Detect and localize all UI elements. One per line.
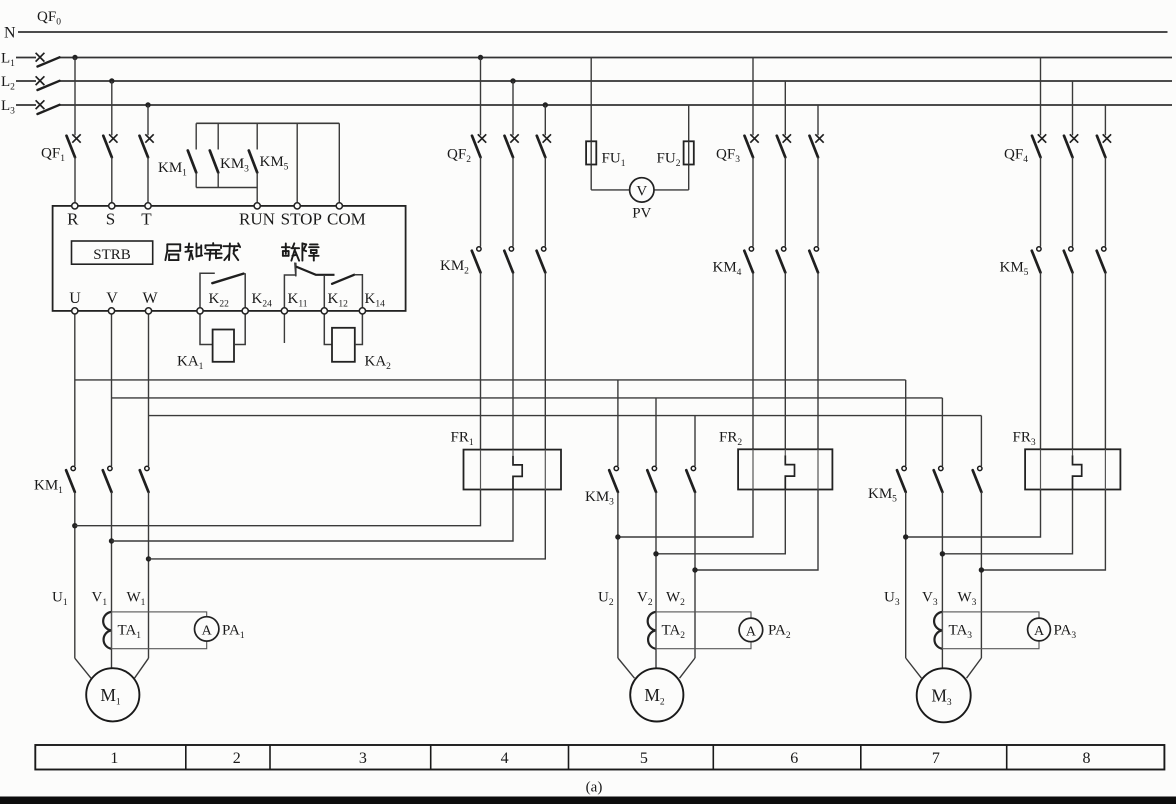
thermal relay FR3 pole 3 wire xyxy=(1104,449,1106,489)
svg-text:U1: U1 xyxy=(52,590,68,609)
wire K11 stub xyxy=(283,311,285,343)
ammeter PA1 xyxy=(195,617,219,641)
svg-text:QF1: QF1 xyxy=(41,146,65,165)
node KM3-FR2 junction U xyxy=(615,534,620,539)
contactor KM3 main contact pole 3 xyxy=(694,416,696,466)
node KM5-FR3 junction U xyxy=(903,534,908,539)
svg-text:KA2: KA2 xyxy=(365,354,392,373)
node KM3-FR2 junction V xyxy=(653,551,658,556)
node KM5-FR3 junction W xyxy=(979,567,984,572)
svg-text:KM1: KM1 xyxy=(34,478,63,497)
svg-text:KM5: KM5 xyxy=(260,154,289,173)
contactor KM5 (bypass M3) pole 2 xyxy=(1069,247,1073,251)
contactor KM1 main contact pole 3 xyxy=(145,466,149,470)
bottom black bar xyxy=(0,797,1176,804)
terminal T xyxy=(145,203,151,209)
terminal W xyxy=(145,308,151,314)
terminal K14 xyxy=(359,308,365,314)
wire W2 to motor M2 xyxy=(680,658,696,678)
svg-text:KM5: KM5 xyxy=(1000,260,1029,279)
svg-text:6: 6 xyxy=(790,750,798,767)
wire FR3 output W to KM5 xyxy=(981,490,1105,571)
breaker QF1 pole 3 xyxy=(147,105,149,135)
svg-text:V1: V1 xyxy=(92,590,108,609)
label guzhang (fault) xyxy=(282,243,299,260)
svg-text:W: W xyxy=(142,290,158,307)
svg-text:K12: K12 xyxy=(328,291,349,310)
wire V output bus xyxy=(111,311,113,466)
breaker QF1 pole 2 xyxy=(111,81,113,135)
contactor KM3 main contact pole 2 xyxy=(655,398,657,466)
contactor KM5 main contact pole 3 xyxy=(980,416,982,466)
wire voltmeter connection xyxy=(591,189,689,191)
svg-text:2: 2 xyxy=(233,750,241,767)
thermal relay FR1 box xyxy=(464,450,562,490)
fuse FU2 xyxy=(688,105,690,190)
breaker QF3 pole 3 xyxy=(817,105,819,135)
wire FR3 output U to KM5 xyxy=(906,490,1041,538)
svg-text:KM5: KM5 xyxy=(868,486,897,505)
thermal relay FR1 pole 3 wire xyxy=(544,450,546,490)
thermal relay FR3 heater symbol (pole 2) xyxy=(1072,449,1074,455)
fuse FU1 xyxy=(590,58,592,190)
svg-text:V3: V3 xyxy=(922,590,938,609)
wire L2 rail xyxy=(16,80,36,82)
svg-text:TA1: TA1 xyxy=(118,623,142,642)
inverter (VFD) box xyxy=(53,206,406,311)
wire FR1 output V to KM1 xyxy=(112,490,514,542)
wire top bus of run contacts xyxy=(196,122,339,124)
wire FR2 output W to KM3 xyxy=(695,490,818,571)
svg-text:L1: L1 xyxy=(1,51,15,70)
thermal relay FR2 box xyxy=(738,449,832,489)
breaker QF4 pole 2 xyxy=(1072,81,1074,135)
wire W3 to motor M3 xyxy=(967,658,982,678)
wire TA2 to PA2 xyxy=(656,612,751,649)
wire STOP terminal drop xyxy=(296,123,298,206)
wire RUN terminal drop xyxy=(256,188,258,206)
svg-text:L3: L3 xyxy=(1,98,15,117)
svg-text:TA3: TA3 xyxy=(949,623,973,642)
contact K22-K24 (start complete relay) xyxy=(200,273,215,311)
wire TA3 to PA3 xyxy=(942,612,1039,649)
terminal K11 xyxy=(281,308,287,314)
node L1-QF1 junction xyxy=(72,55,77,60)
svg-text:V: V xyxy=(636,184,647,200)
ammeter PA2 xyxy=(739,618,763,642)
node L3-QF1 junction xyxy=(145,102,150,107)
relay coil KA1 xyxy=(200,311,213,345)
ammeter PA3 xyxy=(1028,618,1051,641)
contactor KM4 pole 2 xyxy=(782,247,786,251)
contactor KM5 (bypass M3) pole 1 xyxy=(1037,247,1041,251)
svg-text:K22: K22 xyxy=(209,291,230,310)
current transformer TA1 xyxy=(103,612,111,649)
node KM5-FR3 junction V xyxy=(940,551,945,556)
terminal COM xyxy=(336,203,342,209)
contact KM3 (run command) xyxy=(217,123,219,149)
breaker QF2 pole 2 xyxy=(512,81,514,135)
svg-text:PA3: PA3 xyxy=(1054,623,1077,642)
wire W to motor M1 xyxy=(135,658,149,678)
wire U to motor M1 xyxy=(75,658,91,678)
svg-text:W2: W2 xyxy=(666,590,685,609)
svg-text:4: 4 xyxy=(501,750,509,767)
node KM1-FR1 junction V xyxy=(109,538,114,543)
breaker QF0 pole 2 xyxy=(36,76,45,85)
svg-text:KM1: KM1 xyxy=(158,160,187,179)
contactor KM2 pole 1 xyxy=(477,247,481,251)
motor M3 xyxy=(917,668,971,722)
svg-text:L2: L2 xyxy=(1,74,15,93)
svg-text:PV: PV xyxy=(632,206,651,222)
breaker QF0 pole 3 xyxy=(36,100,45,109)
svg-text:A: A xyxy=(746,624,757,639)
terminal STOP xyxy=(294,203,300,209)
svg-text:QF2: QF2 xyxy=(447,147,471,166)
svg-text:U: U xyxy=(69,290,81,307)
label qidong-wancheng (start complete) xyxy=(165,244,180,260)
svg-text:U3: U3 xyxy=(884,590,900,609)
motor M1 xyxy=(86,668,139,721)
node L2-QF1 junction xyxy=(109,78,114,83)
svg-text:A: A xyxy=(1034,624,1045,639)
svg-text:A: A xyxy=(202,623,213,638)
contactor KM2 pole 3 xyxy=(542,247,546,251)
node L1-QF2 junction xyxy=(478,55,483,60)
contactor KM1 main contact pole 2 xyxy=(108,466,112,470)
motor M2 xyxy=(630,668,683,721)
breaker QF3 pole 2 xyxy=(784,81,786,135)
contactor KM5 main contact pole 2 xyxy=(941,398,943,466)
fault pointer line xyxy=(295,263,296,277)
thermal relay FR2 pole 1 wire xyxy=(752,449,754,489)
current transformer TA2 xyxy=(648,612,656,649)
svg-text:RUN STOP COM: RUN STOP COM xyxy=(239,210,366,229)
contactor KM2 pole 2 xyxy=(509,247,513,251)
svg-text:KM3: KM3 xyxy=(220,156,249,175)
svg-text:STRB: STRB xyxy=(93,247,131,263)
wire TA1 to PA1 xyxy=(112,612,207,649)
terminal K24 xyxy=(242,308,248,314)
contact KM1 (run command) xyxy=(195,123,197,149)
thermal relay FR1 heater symbol (pole 2) xyxy=(512,450,514,456)
svg-text:KM3: KM3 xyxy=(585,489,614,508)
wire W output bus xyxy=(148,311,150,466)
svg-text:V: V xyxy=(106,290,118,307)
node L2-QF2 junction xyxy=(510,78,515,83)
wire COM terminal drop xyxy=(338,123,340,206)
terminal U xyxy=(72,308,78,314)
contactor KM5 (bypass M3) pole 3 xyxy=(1102,247,1106,251)
svg-text:K11: K11 xyxy=(288,291,308,310)
contact K11-K12-K14 (fault relay) xyxy=(284,275,295,311)
svg-text:TA2: TA2 xyxy=(662,623,686,642)
breaker QF1 pole 1 xyxy=(74,58,76,136)
breaker QF3 pole 1 xyxy=(752,58,754,136)
svg-text:QF3: QF3 xyxy=(716,147,740,166)
terminal RUN xyxy=(254,203,260,209)
wire L1 rail xyxy=(16,57,36,59)
terminal V xyxy=(108,308,114,314)
svg-text:T: T xyxy=(141,210,152,229)
svg-text:U2: U2 xyxy=(598,590,614,609)
svg-text:FR1: FR1 xyxy=(451,430,474,449)
thermal relay FR1 pole 1 wire xyxy=(480,450,482,490)
svg-text:FU2: FU2 xyxy=(657,151,681,170)
relay coil KA2 xyxy=(324,311,332,345)
node KM1-FR1 junction W xyxy=(146,556,151,561)
wire FR2 output V to KM3 xyxy=(656,490,785,554)
svg-text:7: 7 xyxy=(932,750,940,767)
svg-text:S: S xyxy=(106,210,115,229)
display STRB box xyxy=(72,241,153,264)
wire U3 to motor M3 xyxy=(906,658,922,678)
svg-text:W3: W3 xyxy=(958,590,977,609)
svg-text:V2: V2 xyxy=(637,590,653,609)
terminal R xyxy=(72,203,78,209)
thermal relay FR2 heater symbol (pole 2) xyxy=(784,449,786,455)
wire FR1 output U to KM1 xyxy=(75,490,481,526)
svg-text:K14: K14 xyxy=(365,291,386,310)
contactor KM4 pole 3 xyxy=(814,247,818,251)
breaker QF2 pole 1 xyxy=(480,58,482,136)
svg-text:K24: K24 xyxy=(252,291,273,310)
svg-text:KM4: KM4 xyxy=(713,260,742,279)
svg-text:FU1: FU1 xyxy=(602,151,626,170)
wire U2 to motor M2 xyxy=(618,658,635,678)
svg-text:PA2: PA2 xyxy=(768,623,791,642)
contactor KM5 main contact pole 1 xyxy=(905,380,907,466)
node KM3-FR2 junction W xyxy=(692,567,697,572)
svg-text:R: R xyxy=(67,210,79,229)
terminal S xyxy=(109,203,115,209)
contactor KM3 main contact pole 1 xyxy=(617,380,619,466)
svg-text:QF0: QF0 xyxy=(37,9,61,28)
svg-text:8: 8 xyxy=(1083,750,1091,767)
svg-text:3: 3 xyxy=(359,750,367,767)
svg-text:KA1: KA1 xyxy=(177,354,204,373)
contactor KM4 pole 1 xyxy=(749,247,753,251)
svg-text:W1: W1 xyxy=(127,590,146,609)
svg-text:PA1: PA1 xyxy=(222,623,245,642)
wire bottom bus of run contacts xyxy=(196,187,257,189)
wire L3 rail xyxy=(16,104,36,106)
contactor KM1 main contact pole 1 xyxy=(71,466,75,470)
wire U output bus xyxy=(74,311,76,466)
breaker QF4 pole 3 xyxy=(1104,105,1106,135)
svg-text:5: 5 xyxy=(640,750,648,767)
wire FR3 output V to KM5 xyxy=(942,490,1072,554)
svg-text:1: 1 xyxy=(110,750,118,767)
svg-text:KM2: KM2 xyxy=(440,258,469,277)
node KM1-FR1 junction U xyxy=(72,523,77,528)
breaker QF0 pole 1 xyxy=(36,53,45,62)
current transformer TA3 xyxy=(934,612,942,649)
svg-text:FR3: FR3 xyxy=(1013,430,1036,449)
wire N rail xyxy=(18,31,1168,33)
terminal K22 xyxy=(197,308,203,314)
thermal relay FR2 pole 3 wire xyxy=(817,449,819,489)
terminal K12 xyxy=(321,308,327,314)
svg-text:FR2: FR2 xyxy=(719,430,742,449)
wire FR2 output U to KM3 xyxy=(618,490,753,538)
voltmeter PV xyxy=(630,178,654,202)
node L3-QF2 junction xyxy=(543,102,548,107)
contact KM5 (run command) xyxy=(256,123,258,149)
thermal relay FR3 box xyxy=(1025,449,1120,489)
wire FR1 output W to KM1 xyxy=(149,490,546,559)
svg-text:(a): (a) xyxy=(586,780,603,796)
thermal relay FR3 pole 1 wire xyxy=(1040,449,1042,489)
breaker QF4 pole 1 xyxy=(1040,58,1042,136)
svg-text:QF4: QF4 xyxy=(1004,147,1028,166)
breaker QF2 pole 3 xyxy=(544,105,546,135)
svg-text:N: N xyxy=(4,25,16,42)
terminal strip table xyxy=(35,745,1164,770)
